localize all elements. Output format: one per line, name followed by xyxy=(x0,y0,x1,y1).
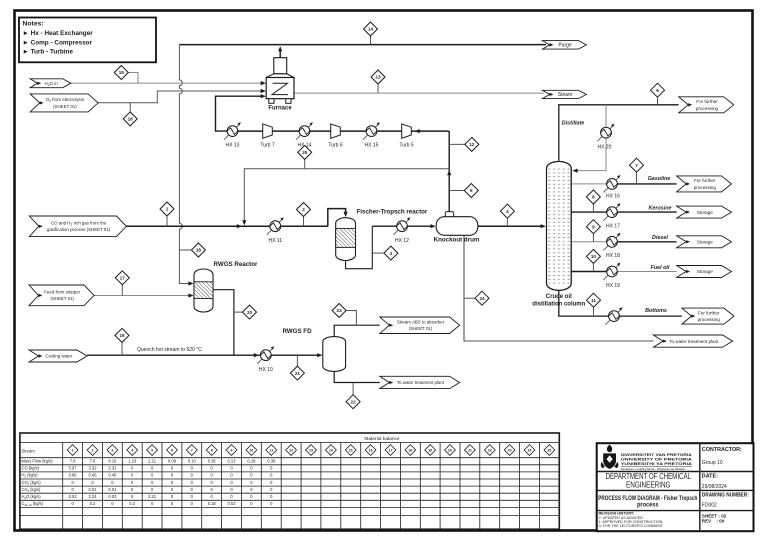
svg-text:Fuel oil: Fuel oil xyxy=(651,265,670,271)
stream tag 4 xyxy=(506,211,508,226)
svg-text:25: 25 xyxy=(547,448,551,452)
input flag CO and H2 rich gas xyxy=(29,216,126,237)
svg-text:HX 11: HX 11 xyxy=(269,238,283,244)
output flag for further processing (distillate) xyxy=(679,97,734,113)
svg-text:14: 14 xyxy=(368,27,374,32)
svg-text:RWGS FD: RWGS FD xyxy=(282,328,312,335)
heat exchanger HX 10 xyxy=(257,349,272,364)
svg-text:16: 16 xyxy=(369,448,373,452)
svg-text:5: 5 xyxy=(151,448,153,452)
output flag storage (kerosine) xyxy=(677,206,732,218)
svg-text:0.2: 0.2 xyxy=(129,501,135,506)
Knockout drum xyxy=(445,212,453,218)
svg-text:For further: For further xyxy=(696,99,718,104)
svg-text:11: 11 xyxy=(591,298,596,303)
svg-text:FD002: FD002 xyxy=(702,503,717,509)
Crude oil distillation column xyxy=(547,161,572,290)
stream tag 11 xyxy=(593,300,595,316)
stream tag 9 xyxy=(592,227,594,242)
wire O2 line xyxy=(98,91,264,103)
svg-text:9: 9 xyxy=(592,224,595,229)
svg-text:Storage: Storage xyxy=(697,240,714,245)
material balance table xyxy=(20,433,559,529)
svg-text:0.53: 0.53 xyxy=(69,494,78,499)
svg-text:0.46: 0.46 xyxy=(108,473,117,478)
notes box xyxy=(19,18,156,63)
wire knockout drum bottoms to water treatment xyxy=(464,235,653,341)
svg-text:11: 11 xyxy=(269,448,273,452)
stream tag 2 xyxy=(303,210,305,227)
svg-text:12: 12 xyxy=(469,142,475,147)
svg-text:0.02: 0.02 xyxy=(228,501,237,506)
output flag for further processing (bottoms) xyxy=(682,308,734,324)
wire cooling water / quench line xyxy=(87,354,321,356)
svg-text:8: 8 xyxy=(592,195,595,200)
svg-text:HX 12: HX 12 xyxy=(395,238,409,244)
svg-text:14: 14 xyxy=(329,448,333,452)
svg-text:4.16: 4.16 xyxy=(108,459,117,464)
svg-text:Distillate: Distillate xyxy=(562,121,584,127)
svg-text:20: 20 xyxy=(448,448,452,452)
svg-text:Diesel: Diesel xyxy=(652,235,668,241)
svg-text:24: 24 xyxy=(528,448,532,452)
heat exchanger HX 17 xyxy=(603,206,618,221)
svg-text:For further: For further xyxy=(694,178,716,183)
svg-text:7.6: 7.6 xyxy=(70,459,76,464)
svg-text:12: 12 xyxy=(289,448,293,452)
svg-text:22: 22 xyxy=(351,399,357,404)
wire RWGS FD vapour out xyxy=(334,325,380,336)
svg-text:Quench hot stream to 620 °C: Quench hot stream to 620 °C xyxy=(137,347,202,353)
wire stream tag 15 stem xyxy=(128,73,138,84)
output flag to water treatment plant (knockout) xyxy=(653,335,732,347)
svg-text:Stream: Stream xyxy=(22,449,36,454)
svg-text:0.2: 0.2 xyxy=(90,501,96,506)
svg-text:10: 10 xyxy=(591,254,597,259)
svg-text:processing: processing xyxy=(698,317,721,322)
svg-text:3: 3 xyxy=(390,251,393,256)
svg-text:UNIVERSITY OF PRETORIA: UNIVERSITY OF PRETORIA xyxy=(621,457,693,461)
wire turbine train xyxy=(233,130,450,132)
svg-text:distillation column: distillation column xyxy=(532,302,585,308)
svg-text:To water treatment plant: To water treatment plant xyxy=(669,339,719,344)
wire kerosine draw xyxy=(571,211,676,213)
wire H2O in line xyxy=(71,82,264,84)
svg-text:Bottoms: Bottoms xyxy=(645,308,667,314)
output flag Purge xyxy=(543,41,587,50)
wire stream tag 3 stub xyxy=(372,252,384,254)
svg-text:22: 22 xyxy=(488,448,492,452)
svg-text:1: 1 xyxy=(166,207,169,212)
svg-text:(SHEET 01): (SHEET 01) xyxy=(50,296,74,301)
heat exchanger bottoms cooler xyxy=(605,310,620,325)
stream tag 6 xyxy=(657,90,659,105)
svg-text:0.13: 0.13 xyxy=(228,459,237,464)
output flag stream ABS to absorber xyxy=(380,317,460,334)
stream tag 3 xyxy=(384,246,398,260)
stream tag 13 xyxy=(377,77,379,93)
svg-text:4: 4 xyxy=(131,448,133,452)
heat exchanger HX 19 xyxy=(603,265,618,280)
svg-text:RWGS Reactor: RWGS Reactor xyxy=(214,261,258,268)
svg-text:Stream ABS to absorber: Stream ABS to absorber xyxy=(397,320,445,325)
svg-text:2: 2 xyxy=(302,207,305,212)
svg-text:To water treatment plant: To water treatment plant xyxy=(397,380,445,385)
svg-text:0.03: 0.03 xyxy=(108,494,117,499)
title block xyxy=(597,443,754,531)
svg-text:process: process xyxy=(637,502,659,509)
wire fuel oil draw xyxy=(571,271,612,273)
svg-text:0.86: 0.86 xyxy=(69,473,78,478)
svg-text:Gasoline: Gasoline xyxy=(648,176,671,182)
svg-text:16: 16 xyxy=(128,117,134,122)
svg-text:19: 19 xyxy=(119,333,125,338)
turbine Turb 7 xyxy=(263,124,273,138)
stream tag 7 xyxy=(636,165,638,184)
svg-text:CONTRACTOR:: CONTRACTOR: xyxy=(702,447,742,453)
svg-text:0.36: 0.36 xyxy=(208,459,217,464)
svg-text:Group 10: Group 10 xyxy=(702,460,723,466)
input flag feed from stripper xyxy=(29,285,94,306)
output flag storage (fuel oil) xyxy=(677,266,732,278)
heat exchanger HX 12 xyxy=(393,220,408,235)
wire purge header xyxy=(179,44,546,46)
svg-text:YUNIBESITHI YA PRETORIA: YUNIBESITHI YA PRETORIA xyxy=(621,462,693,466)
svg-text:Cooling water: Cooling water xyxy=(45,354,72,359)
svg-text:Knockout drum: Knockout drum xyxy=(434,237,480,244)
svg-text:DRAWING NUMBER:: DRAWING NUMBER: xyxy=(702,493,749,499)
svg-text:DATE:: DATE: xyxy=(702,473,718,479)
svg-text:2.21: 2.21 xyxy=(148,459,157,464)
svg-text:21: 21 xyxy=(468,448,472,452)
wire stream tag 23 stem xyxy=(346,311,356,326)
svg-text:Fischer-Tropsch reactor: Fischer-Tropsch reactor xyxy=(357,209,428,216)
svg-text:Turb 7: Turb 7 xyxy=(260,143,274,149)
svg-text:9: 9 xyxy=(231,448,233,452)
svg-text:3: 3 xyxy=(111,448,113,452)
svg-text:Crude oil: Crude oil xyxy=(546,294,572,300)
stream tag 1 xyxy=(166,209,168,226)
input flag H2O in xyxy=(30,79,71,88)
svg-text:18: 18 xyxy=(196,248,202,253)
svg-text:6: 6 xyxy=(656,88,659,93)
svg-text:For further: For further xyxy=(698,310,720,315)
svg-text:gasification process (SHEET 01: gasification process (SHEET 01) xyxy=(47,227,111,232)
university of pretoria logo xyxy=(601,445,619,469)
svg-text:23: 23 xyxy=(337,308,343,313)
svg-text:HX 15: HX 15 xyxy=(365,143,379,149)
stream tag 10 xyxy=(592,256,594,271)
heat exchanger HX 20 xyxy=(597,126,612,141)
output flag to water treatment plant (RWGS FD) xyxy=(380,376,460,388)
svg-text:► Hx - Heat Exchanger: ► Hx - Heat Exchanger xyxy=(23,30,94,37)
heat exchanger HX 11 xyxy=(267,220,282,235)
svg-text:7: 7 xyxy=(191,448,193,452)
stream tag 16 xyxy=(129,103,131,119)
heat exchanger HX 16 xyxy=(603,177,618,192)
svg-text:8: 8 xyxy=(211,448,213,452)
svg-text:HX 19: HX 19 xyxy=(606,283,620,289)
svg-text:2: 2 xyxy=(92,448,94,452)
wire RWGS outlet xyxy=(213,290,234,356)
svg-text:3.32: 3.32 xyxy=(108,466,117,471)
stream tag 12 xyxy=(449,143,472,145)
svg-text:Mass Flow (kg/s): Mass Flow (kg/s) xyxy=(22,459,54,464)
svg-text:7.6: 7.6 xyxy=(90,459,96,464)
RWGS Reactor xyxy=(194,269,213,312)
wire gasoline draw xyxy=(571,183,606,185)
svg-text:HX 13: HX 13 xyxy=(226,143,240,149)
stream tag 19 xyxy=(121,335,123,355)
svg-text:Material balance: Material balance xyxy=(364,436,400,442)
stream tag 14 xyxy=(370,29,372,45)
svg-text:13: 13 xyxy=(375,75,381,80)
stream tag 17 xyxy=(121,278,123,296)
svg-text:3.32: 3.32 xyxy=(89,466,98,471)
svg-text:0.09: 0.09 xyxy=(168,459,177,464)
svg-text:Storage: Storage xyxy=(697,210,714,215)
svg-text:2.24: 2.24 xyxy=(89,494,98,499)
svg-text:Kerosine: Kerosine xyxy=(648,206,671,212)
svg-text:2.21: 2.21 xyxy=(148,494,157,499)
wire RWGS FD liquid out xyxy=(334,371,380,382)
svg-text:► Comp - Compressor: ► Comp - Compressor xyxy=(23,39,93,46)
svg-text:0.38: 0.38 xyxy=(267,459,276,464)
wire diesel draw xyxy=(571,241,612,243)
svg-text:Steam: Steam xyxy=(558,92,572,98)
stream tag 8 xyxy=(592,197,594,212)
svg-text:15: 15 xyxy=(119,70,125,75)
heat exchanger HX 15 xyxy=(363,125,378,140)
furnace xyxy=(266,58,294,104)
svg-text:29/08/2024: 29/08/2024 xyxy=(702,484,727,490)
svg-text:6: 6 xyxy=(171,448,173,452)
stream tag 15 xyxy=(114,66,128,80)
svg-text:5: 5 xyxy=(470,188,473,193)
svg-text:4: 4 xyxy=(506,209,509,214)
wire HX20 reflux xyxy=(573,105,606,171)
svg-text:21: 21 xyxy=(295,371,301,376)
wire steam line xyxy=(294,92,544,94)
wire vertical purge/RWGS feed riser with crossing hops xyxy=(179,45,191,284)
svg-text:0.01: 0.01 xyxy=(108,487,117,492)
stream tag 23 xyxy=(332,304,346,318)
RWGS FD flash drum xyxy=(323,337,346,372)
input flag O2 from electrolysis xyxy=(30,94,98,112)
svg-text:► Turb - Turbine: ► Turb - Turbine xyxy=(23,49,74,56)
svg-text:Feed from stripper: Feed from stripper xyxy=(44,290,80,295)
input flag cooling water xyxy=(29,350,87,362)
wire furnace stack to purge xyxy=(279,48,281,58)
wire main feed line xyxy=(126,225,327,227)
svg-text:HX 20: HX 20 xyxy=(598,145,612,151)
svg-text:24: 24 xyxy=(479,296,485,301)
svg-text:Purge: Purge xyxy=(558,43,572,49)
svg-text:(SHEET 01): (SHEET 01) xyxy=(409,326,433,331)
stream tag 20 xyxy=(234,311,250,313)
svg-text:23: 23 xyxy=(508,448,512,452)
wire recycle header xyxy=(244,169,449,224)
svg-text:17: 17 xyxy=(120,276,126,281)
svg-text:Furnace: Furnace xyxy=(268,106,292,112)
svg-text:15: 15 xyxy=(349,448,353,452)
turbine Turb 5 xyxy=(402,124,412,138)
stream tag 24 xyxy=(464,297,482,299)
svg-text:Notes:: Notes: xyxy=(23,21,44,28)
svg-text:Turb 6: Turb 6 xyxy=(328,143,342,149)
wire FT to knockout drum xyxy=(372,225,434,227)
svg-text:0: FOR THE LECTURER'S COMMENT: 0: FOR THE LECTURER'S COMMENT xyxy=(599,524,664,528)
svg-text:0.10: 0.10 xyxy=(188,459,197,464)
svg-text:HX 16: HX 16 xyxy=(606,194,620,200)
svg-text:processing: processing xyxy=(694,185,717,190)
svg-text:7: 7 xyxy=(635,163,638,168)
output flag storage (diesel) xyxy=(677,236,732,248)
output flag Steam xyxy=(543,90,587,98)
svg-text:ENGINEERING: ENGINEERING xyxy=(626,480,671,489)
svg-text:Storage: Storage xyxy=(697,269,714,274)
svg-text:0.46: 0.46 xyxy=(89,473,98,478)
svg-text:10: 10 xyxy=(249,448,253,452)
stream tag 5 xyxy=(449,190,471,192)
svg-text:HX 10: HX 10 xyxy=(259,367,273,373)
wire HX13 to furnace xyxy=(216,96,264,131)
wire column overhead xyxy=(559,105,679,161)
Fischer-Tropsch reactor xyxy=(336,218,356,261)
turbine Turb 6 xyxy=(331,124,341,138)
svg-text:25: 25 xyxy=(302,150,308,155)
svg-text:REVISION HISTORY:: REVISION HISTORY: xyxy=(599,512,635,516)
svg-text:20: 20 xyxy=(247,310,253,315)
heat exchanger HX 18 xyxy=(603,235,618,250)
svg-text:UNIVERSITEIT VAN PRETORIA: UNIVERSITEIT VAN PRETORIA xyxy=(621,453,693,457)
svg-text:Turb 5: Turb 5 xyxy=(399,143,413,149)
svg-text:Denkleiers • Leading Minds • D: Denkleiers • Leading Minds • Dikgopolo t… xyxy=(621,467,685,471)
svg-text:CO (kg/s): CO (kg/s) xyxy=(22,466,40,471)
svg-text:processing: processing xyxy=(696,106,719,111)
heat exchanger HX 13 xyxy=(224,125,239,140)
output flag for further processing (gasoline) xyxy=(677,176,732,192)
wire FT reactor outlet xyxy=(346,226,373,269)
svg-text:HX 18: HX 18 xyxy=(606,253,620,259)
svg-text:HX 17: HX 17 xyxy=(606,224,620,230)
wire knockout vapour riser xyxy=(448,131,450,213)
svg-text:13: 13 xyxy=(309,448,313,452)
svg-text:(SHEET 01): (SHEET 01) xyxy=(53,104,77,109)
svg-text:17: 17 xyxy=(389,448,393,452)
svg-text:5.97: 5.97 xyxy=(69,466,78,471)
svg-text:0.01: 0.01 xyxy=(89,487,98,492)
svg-text:19: 19 xyxy=(428,448,432,452)
svg-text:1.23: 1.23 xyxy=(128,459,137,464)
svg-text:18: 18 xyxy=(408,448,412,452)
stream tag 18 xyxy=(179,249,198,251)
svg-text:1: 1 xyxy=(72,448,74,452)
stream tag 22 xyxy=(352,383,354,402)
wire stripper feed xyxy=(94,295,191,297)
heat exchanger HX 14 xyxy=(296,125,311,140)
wire column bottoms xyxy=(559,285,682,317)
stream tag 21 xyxy=(296,355,298,373)
svg-text:0.18: 0.18 xyxy=(247,459,256,464)
svg-text:REV : 00: REV : 00 xyxy=(702,519,725,524)
stream tag 25 xyxy=(304,152,306,168)
wire step into FT reactor xyxy=(328,209,346,227)
wire knockout drum to column xyxy=(478,225,545,227)
svg-text:0.18: 0.18 xyxy=(208,501,217,506)
